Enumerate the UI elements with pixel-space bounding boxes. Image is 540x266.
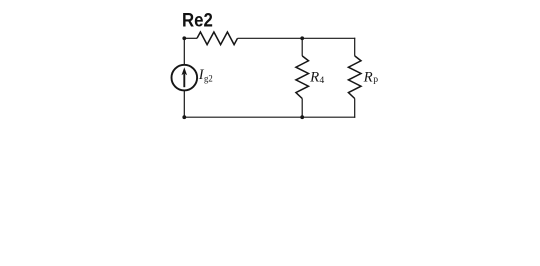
svg-text:R: R: [363, 70, 373, 86]
node B top-mid junction dot: [300, 36, 304, 40]
node A top-left junction dot: [182, 36, 186, 40]
svg-text:R: R: [309, 70, 319, 86]
wire node B down to R4 top lead: [301, 38, 303, 56]
svg-text:Re2: Re2: [182, 11, 213, 32]
label R4: [309, 70, 324, 87]
wire node B to top-right corner: [302, 37, 355, 39]
svg-text:g2: g2: [204, 73, 213, 84]
resistor R4: [296, 56, 309, 99]
node E bottom-mid junction dot: [300, 115, 304, 119]
label Rp: [363, 70, 379, 86]
svg-text:4: 4: [319, 75, 324, 86]
resistor Rp: [348, 56, 361, 99]
wire bottom: bottom-left node to bottom-mid node: [184, 116, 302, 118]
wire top-left node to Re2 left lead: [184, 37, 197, 39]
label Ig2: [198, 67, 213, 84]
wire top-left node down to current source: [183, 38, 185, 65]
wire current source to bottom-left node: [183, 90, 185, 117]
svg-text:p: p: [373, 74, 378, 85]
resistor Re2: [197, 32, 238, 45]
wire bottom: bottom-mid node to bottom-right corner: [302, 116, 355, 118]
wire R4 bottom lead to bottom-mid node: [301, 99, 303, 118]
current source Ig2: [172, 65, 198, 91]
wire Re2 right lead to node B: [238, 37, 303, 39]
wire Rp bottom lead to bottom-right corner: [354, 99, 356, 118]
wire right: top-right corner down to Rp top lead: [354, 38, 356, 56]
label Re2: [182, 11, 213, 32]
node D bottom-left junction dot: [182, 115, 186, 119]
